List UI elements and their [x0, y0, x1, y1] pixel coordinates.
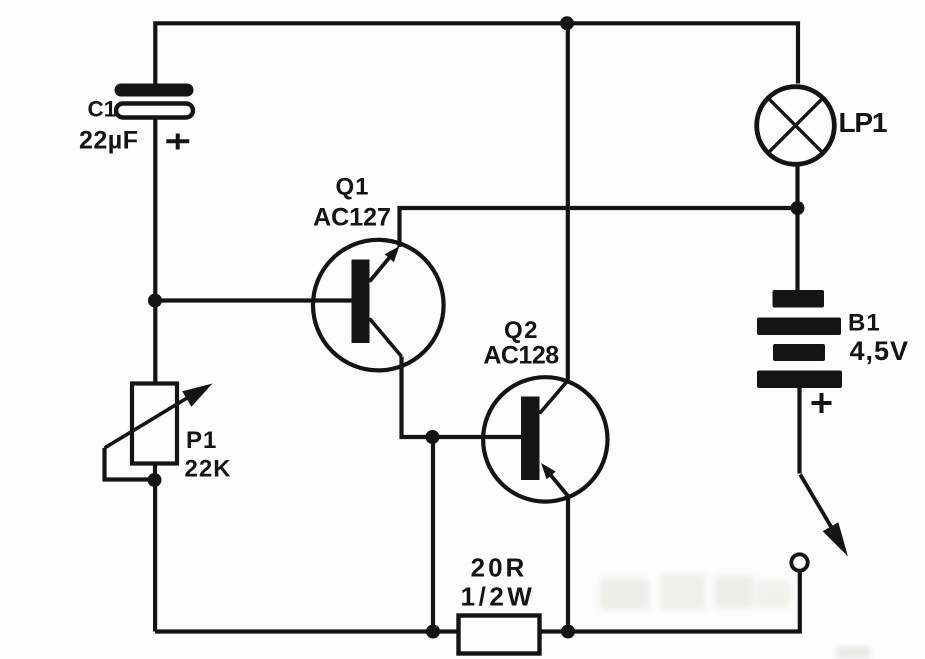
plus mark of C1 — [166, 134, 189, 150]
svg-text:C1: C1 — [88, 97, 117, 122]
battery B1 — [757, 290, 842, 388]
switch S1 blade with arrow — [800, 475, 848, 557]
plus mark of battery — [812, 393, 832, 413]
svg-text:AC127: AC127 — [313, 204, 391, 232]
svg-text:20R: 20R — [471, 553, 528, 583]
svg-text:AC128: AC128 — [483, 342, 559, 370]
resistor 20R — [459, 616, 540, 654]
node: top rail junction — [560, 16, 574, 30]
svg-text:22µF: 22µF — [79, 127, 138, 155]
capacitor C1 — [115, 84, 194, 118]
potentiometer P1 — [105, 384, 213, 480]
svg-text:22K: 22K — [185, 456, 232, 483]
node: lamp/battery/collector junction — [791, 201, 805, 215]
node: P1 bottom junction — [148, 473, 162, 487]
wire: lamp to battery — [795, 166, 799, 290]
wire: switch contact down to bottom rail corner — [155, 573, 800, 632]
wire: junction down to bottom rail — [431, 437, 435, 632]
wire: battery down to switch blade — [797, 388, 801, 474]
transistor Q2 — [483, 377, 607, 501]
svg-text:4,5V: 4,5V — [850, 336, 910, 366]
svg-text:B1: B1 — [848, 310, 881, 337]
wire: top rail from C1 top to lamp top — [155, 23, 798, 84]
node: base node on left column — [148, 294, 162, 308]
svg-text:LP1: LP1 — [839, 107, 887, 138]
svg-text:P1: P1 — [186, 427, 217, 454]
lamp LP1 — [757, 87, 835, 165]
wire: Q1 collector up and across to battery node — [400, 208, 798, 247]
svg-text:Q2: Q2 — [504, 317, 539, 344]
svg-text:1/2W: 1/2W — [461, 582, 536, 612]
wire: Q1 base wire — [155, 298, 352, 302]
node: bottom rail right of resistor — [561, 625, 575, 639]
node: emitter/base junction — [426, 430, 440, 444]
switch S1 contact — [791, 554, 807, 570]
wire: Q2 emitter down to bottom rail — [566, 496, 570, 632]
node: bottom rail left of resistor — [426, 625, 440, 639]
wire: left column down to bottom rail — [153, 480, 157, 632]
wire: vertical from top rail to Q2 collector — [566, 23, 570, 382]
faint watermark ghost marks — [600, 574, 870, 659]
wire: C1 bottom down to P1 top — [153, 117, 157, 384]
wire: Q1 emitter down and across to Q2 base — [402, 357, 522, 438]
svg-text:Q1: Q1 — [335, 174, 369, 201]
transistor Q1 — [313, 240, 444, 371]
wire: P1 bottom stub — [153, 464, 157, 481]
